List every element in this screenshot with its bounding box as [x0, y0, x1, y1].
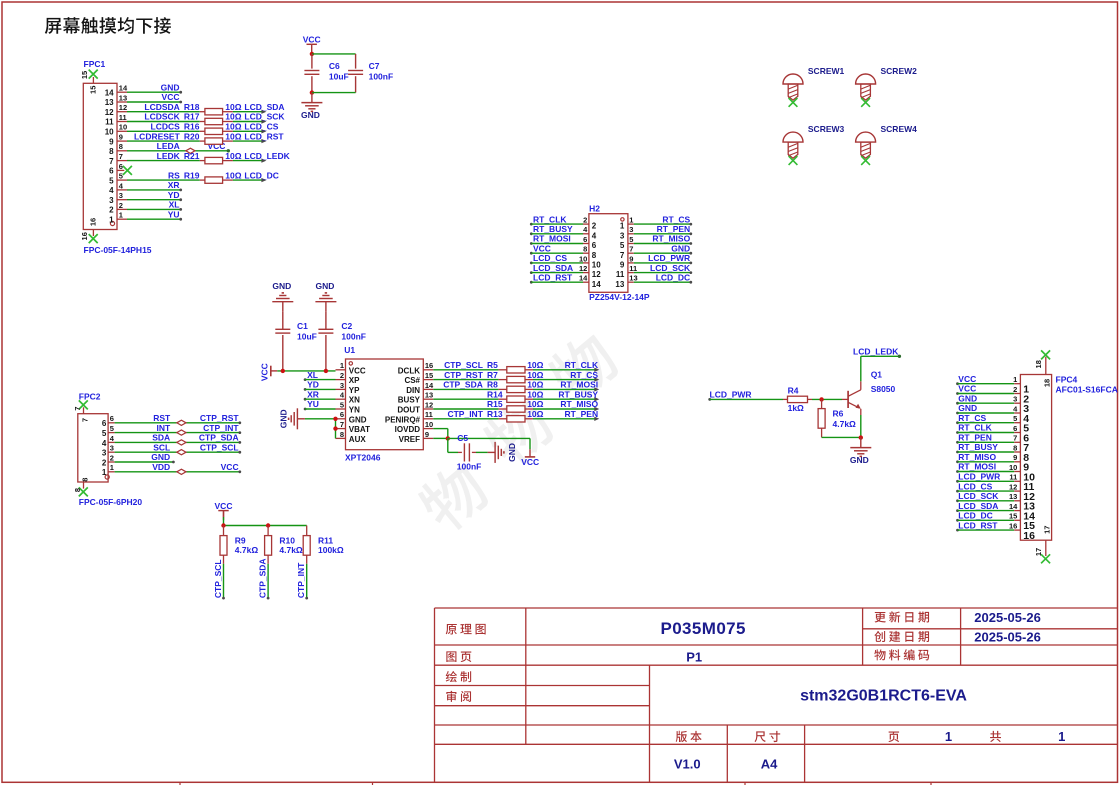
svg-text:R21: R21 [184, 151, 200, 161]
connector FPC1 [83, 59, 117, 229]
wire VCC to U1 pin1 [277, 369, 335, 373]
FPC2 pin 5 INT -> CTP_INT [102, 423, 241, 438]
resistor R7 10R -> RT_CS [433, 370, 599, 383]
ground GND (right of C5) [488, 442, 517, 463]
capacitor C2 100nF [318, 321, 366, 371]
svg-text:R4: R4 [788, 386, 799, 396]
svg-text:12: 12 [425, 400, 433, 409]
svg-text:RT_BUSY: RT_BUSY [958, 442, 998, 452]
svg-text:GND: GND [958, 403, 977, 413]
svg-text:DCLK: DCLK [398, 366, 420, 375]
svg-text:FPC2: FPC2 [79, 391, 101, 401]
U1 pin 2 XP [336, 371, 361, 385]
svg-text:CTP_RST: CTP_RST [200, 413, 240, 423]
svg-text:10: 10 [425, 420, 433, 429]
H2 pin 2 net RT_CLK [530, 214, 597, 230]
svg-text:4: 4 [102, 439, 107, 448]
svg-text:XL: XL [169, 200, 180, 210]
svg-text:6: 6 [583, 235, 587, 244]
FPC4 pin 13 net LCD_SCK [956, 491, 1035, 513]
svg-text:10uF: 10uF [297, 332, 317, 342]
svg-text:RT_MISO: RT_MISO [652, 234, 690, 244]
U1 part name XPT2046 [345, 452, 381, 462]
svg-text:10Ω: 10Ω [527, 389, 543, 399]
svg-text:RT_CS: RT_CS [662, 214, 690, 224]
svg-text:LCDSDA: LCDSDA [144, 102, 179, 112]
svg-text:14: 14 [105, 88, 114, 97]
svg-text:P1: P1 [686, 649, 702, 664]
wire VREF to VCC [448, 438, 530, 449]
svg-text:9: 9 [1013, 453, 1017, 462]
FPC4 pin 10 net RT_MOSI [956, 462, 1035, 484]
svg-text:LCD_RST: LCD_RST [958, 520, 998, 530]
net label XL to U1 pin 2 [304, 370, 336, 381]
FPC4 pin 2 net VCC [956, 384, 1029, 406]
svg-text:12: 12 [579, 264, 587, 273]
U1 pin 9 VREF [399, 430, 434, 444]
svg-text:10: 10 [119, 123, 127, 132]
resistor R16 10R LCDCS -> LCD_CS [127, 122, 279, 135]
FPC1 pin 9 net LCDRESET [109, 133, 127, 147]
wire VCC bus to pull-ups [221, 510, 306, 528]
U1 pin 16 DCLK [398, 361, 434, 375]
svg-text:VDD: VDD [152, 462, 170, 472]
svg-text:14: 14 [425, 381, 434, 390]
wire C6/C7 bottom [310, 90, 356, 94]
svg-text:1: 1 [1013, 375, 1017, 384]
FPC1 pin 8 net LEDA [109, 141, 230, 156]
svg-text:DIN: DIN [406, 386, 420, 395]
H2 pin 11 net LCD_SCK [616, 263, 692, 279]
capacitor C7 100nF [348, 54, 393, 93]
svg-text:8: 8 [73, 488, 82, 492]
svg-text:VCC: VCC [215, 501, 233, 511]
svg-text:VCC: VCC [349, 366, 366, 375]
svg-text:10: 10 [592, 261, 601, 270]
svg-text:1: 1 [102, 468, 107, 477]
svg-text:7: 7 [81, 418, 90, 422]
svg-text:10Ω: 10Ω [527, 399, 543, 409]
svg-text:8: 8 [1013, 443, 1017, 452]
resistor R9 4.7kΩ pull-up to CTP_SCL [213, 526, 258, 600]
svg-text:5: 5 [1013, 414, 1017, 423]
svg-text:1: 1 [119, 211, 123, 220]
svg-text:YD: YD [168, 190, 180, 200]
FPC2 pin 3 SCL -> CTP_SCL [102, 442, 241, 457]
svg-text:13: 13 [425, 391, 433, 400]
svg-text:CTP_INT: CTP_INT [296, 562, 306, 598]
svg-text:XP: XP [349, 376, 360, 385]
svg-text:YN: YN [349, 406, 360, 415]
H2 pin 5 net RT_MISO [620, 234, 692, 250]
capacitor C1 10uF [275, 321, 317, 371]
svg-text:C6: C6 [329, 61, 340, 71]
svg-text:4: 4 [592, 231, 597, 240]
svg-text:14: 14 [119, 84, 128, 93]
power VCC (left of U1) [259, 363, 277, 381]
svg-text:11: 11 [616, 270, 625, 279]
FPC4 part number AFC01-S16FCA [1056, 385, 1118, 395]
U1 pin 5 YN [336, 400, 361, 414]
connector H2 [589, 203, 628, 292]
svg-text:LCD_CS: LCD_CS [958, 481, 992, 491]
svg-text:100nF: 100nF [457, 462, 482, 472]
H2 pin 8 net VCC [530, 243, 597, 259]
svg-text:SCREW4: SCREW4 [881, 124, 918, 134]
svg-text:CTP_SDA: CTP_SDA [443, 380, 483, 390]
svg-text:14: 14 [592, 280, 601, 289]
svg-text:LCD_DC: LCD_DC [958, 511, 992, 521]
svg-text:6: 6 [592, 241, 597, 250]
svg-text:1: 1 [629, 216, 633, 225]
svg-text:5: 5 [102, 429, 107, 438]
capacitor C5 100nF [448, 433, 488, 472]
capacitor C6 10uF [304, 54, 348, 93]
FPC2 pin 2 GND [102, 452, 175, 467]
svg-text:RT_PEN: RT_PEN [657, 224, 691, 234]
svg-text:YU: YU [168, 209, 180, 219]
svg-text:LCDSCK: LCDSCK [144, 112, 180, 122]
H2 pin 3 net RT_PEN [620, 224, 692, 240]
svg-text:GND: GND [671, 243, 690, 253]
svg-text:3: 3 [119, 191, 123, 200]
svg-text:7: 7 [109, 157, 114, 166]
svg-text:16: 16 [1009, 522, 1017, 531]
svg-text:CTP_SDA: CTP_SDA [199, 433, 239, 443]
FPC4 pin 17 (no connect) [1034, 526, 1052, 564]
svg-text:U1: U1 [344, 345, 355, 355]
ground GND (above C2) [315, 281, 336, 329]
svg-text:11: 11 [425, 410, 433, 419]
net label XR to U1 pin 4 [304, 389, 336, 400]
FPC4 pin 6 net RT_CLK [956, 423, 1029, 445]
wire VCC rail to C6/C7 [310, 52, 356, 56]
svg-text:R13: R13 [487, 409, 503, 419]
svg-text:5: 5 [629, 235, 633, 244]
svg-text:FPC-05F-14PH15: FPC-05F-14PH15 [84, 245, 152, 255]
ground GND (under C6) [301, 93, 322, 121]
svg-text:AFC01-S16FCA: AFC01-S16FCA [1056, 385, 1118, 395]
svg-text:RT_CLK: RT_CLK [565, 360, 599, 370]
svg-text:15: 15 [425, 371, 433, 380]
svg-text:6: 6 [109, 167, 114, 176]
svg-text:10Ω: 10Ω [225, 170, 241, 180]
H2 pin 4 net RT_BUSY [530, 224, 597, 240]
power VCC (pull-ups) [215, 501, 233, 520]
resistor R6 4.7k [818, 399, 856, 437]
connector FPC2 [78, 391, 109, 482]
svg-text:LCD_SDA: LCD_SDA [244, 102, 284, 112]
svg-text:3: 3 [629, 225, 633, 234]
svg-text:LEDA: LEDA [157, 141, 180, 151]
svg-text:LCD_SDA: LCD_SDA [533, 263, 573, 273]
svg-text:1: 1 [620, 222, 625, 231]
svg-text:R19: R19 [184, 170, 200, 180]
FPC4 pin 8 net RT_BUSY [956, 442, 1029, 464]
svg-text:RT_CS: RT_CS [958, 413, 986, 423]
FPC2 pin 8 (no connect) [73, 478, 90, 497]
U1 pin 1 VCC [336, 361, 366, 375]
svg-text:R8: R8 [487, 380, 498, 390]
net label YD to U1 pin 3 [304, 380, 336, 391]
svg-text:RT_PEN: RT_PEN [958, 433, 992, 443]
FPC4 pin 3 net GND [956, 393, 1029, 415]
svg-text:3: 3 [620, 231, 625, 240]
svg-text:100nF: 100nF [341, 332, 366, 342]
svg-text:GND: GND [272, 281, 291, 291]
svg-text:V1.0: V1.0 [674, 756, 701, 771]
FPC1 pin 6 no-connect [109, 162, 132, 176]
svg-text:LCD_DC: LCD_DC [656, 272, 690, 282]
wire U1 pin10 IOVDD to pin9 VREF [433, 429, 450, 441]
FPC4 pin 7 net RT_PEN [956, 433, 1029, 455]
svg-text:RT_MISO: RT_MISO [958, 452, 996, 462]
svg-text:16: 16 [1023, 530, 1035, 542]
svg-text:VCC: VCC [958, 384, 976, 394]
svg-text:P035M075: P035M075 [660, 619, 745, 638]
svg-text:10uF: 10uF [329, 72, 349, 82]
svg-text:5: 5 [119, 172, 123, 181]
resistor R19 10R RS -> LCD_DC [127, 170, 279, 183]
svg-text:13: 13 [105, 98, 114, 107]
svg-text:LCD_SCK: LCD_SCK [650, 263, 691, 273]
svg-text:10Ω: 10Ω [225, 122, 241, 132]
svg-text:VCC: VCC [221, 462, 239, 472]
svg-text:XR: XR [168, 180, 180, 190]
svg-text:8: 8 [81, 478, 90, 482]
svg-text:VBAT: VBAT [349, 425, 370, 434]
svg-text:13: 13 [629, 274, 637, 283]
svg-text:7: 7 [1013, 434, 1017, 443]
resistor R18 10R LCDSDA -> LCD_SDA [127, 102, 285, 115]
U1 pin 10 IOVDD [395, 420, 434, 434]
svg-text:IOVDD: IOVDD [395, 425, 421, 434]
svg-text:VCC: VCC [303, 35, 321, 45]
U1 pin 13 BUSY [398, 391, 434, 405]
U1 pin 14 DIN [406, 381, 434, 395]
svg-text:6: 6 [1013, 424, 1017, 433]
svg-text:9: 9 [620, 261, 625, 270]
FPC1 part number FPC-05F-14PH15 [84, 245, 152, 255]
svg-text:FPC1: FPC1 [84, 59, 106, 69]
svg-text:2: 2 [583, 216, 587, 225]
FPC1 pin 7 net LEDK [109, 152, 127, 166]
resistor R11 100kΩ pull-up to CTP_INT [296, 526, 344, 600]
svg-text:3: 3 [109, 196, 114, 205]
title block grid [435, 608, 1118, 782]
svg-text:RS: RS [168, 170, 180, 180]
H2 pin 12 net LCD_SDA [530, 263, 601, 279]
svg-text:10: 10 [105, 128, 114, 137]
svg-text:16: 16 [80, 232, 89, 240]
svg-text:R16: R16 [184, 122, 200, 132]
svg-text:LCD_LEDK: LCD_LEDK [244, 151, 290, 161]
FPC4 pin 15 net LCD_DC [956, 511, 1035, 533]
svg-text:13: 13 [615, 280, 624, 289]
svg-text:R20: R20 [184, 131, 200, 141]
ground GND (Q1 emitter) [850, 438, 871, 466]
svg-text:15: 15 [1009, 512, 1017, 521]
svg-text:LCD_DC: LCD_DC [244, 170, 278, 180]
net label LCD_LEDK (collector) [853, 346, 901, 381]
svg-text:GND: GND [315, 281, 334, 291]
svg-text:XL: XL [307, 370, 318, 380]
FPC1 pin 4 net XR [109, 180, 182, 195]
svg-text:R6: R6 [833, 409, 844, 419]
svg-text:15: 15 [80, 71, 89, 79]
svg-text:16: 16 [88, 218, 97, 226]
svg-text:GND: GND [278, 409, 288, 428]
U1 pin 6 GND [336, 410, 367, 424]
svg-text:12: 12 [1009, 483, 1017, 492]
svg-text:SCL: SCL [153, 442, 170, 452]
svg-text:4.7kΩ: 4.7kΩ [279, 545, 303, 555]
svg-text:YU: YU [307, 399, 319, 409]
svg-text:CTP_INT: CTP_INT [203, 423, 239, 433]
FPC1 pin 11 net LCDSCK [105, 113, 127, 127]
resistor R20 10R LCDRESET -> LCD_RST [127, 131, 284, 144]
svg-text:VCC: VCC [162, 92, 180, 102]
FPC4 pin 9 net RT_MISO [956, 452, 1029, 474]
FPC4 pin 5 net RT_CS [956, 413, 1029, 435]
svg-text:BUSY: BUSY [398, 396, 421, 405]
svg-text:15: 15 [88, 86, 97, 94]
svg-text:VCC: VCC [533, 243, 551, 253]
svg-text:YD: YD [307, 380, 319, 390]
svg-text:11: 11 [119, 113, 127, 122]
svg-text:2: 2 [340, 371, 344, 380]
svg-text:LCDRESET: LCDRESET [134, 131, 181, 141]
FPC2 part number FPC-05F-6PH20 [79, 497, 143, 507]
svg-text:RT_MOSI: RT_MOSI [560, 380, 598, 390]
resistor R15 10R -> RT_MISO [433, 399, 599, 412]
svg-text:2: 2 [1013, 385, 1017, 394]
svg-text:VCC: VCC [521, 457, 539, 467]
svg-text:SCREW3: SCREW3 [808, 124, 845, 134]
svg-text:7: 7 [340, 420, 344, 429]
svg-text:C1: C1 [297, 321, 308, 331]
svg-text:R17: R17 [184, 112, 200, 122]
svg-text:FPC4: FPC4 [1056, 374, 1078, 384]
resistor R4 1k [783, 386, 812, 414]
svg-text:10: 10 [1009, 463, 1017, 472]
svg-text:9: 9 [425, 430, 429, 439]
ground GND (U1 pin 6) [278, 408, 335, 429]
H2 pin 14 net LCD_RST [530, 272, 601, 288]
svg-text:3: 3 [340, 381, 344, 390]
svg-text:LCD_SCK: LCD_SCK [958, 491, 999, 501]
FPC1 pin 1 net YU [109, 209, 182, 224]
svg-text:R14: R14 [487, 389, 503, 399]
FPC1 pin 16 (no connect) [80, 218, 98, 243]
svg-text:2025-05-26: 2025-05-26 [974, 629, 1041, 644]
svg-text:CS#: CS# [404, 376, 420, 385]
transistor Q1 S8050 [842, 370, 896, 416]
wire R4 to Q1 base [812, 397, 842, 401]
FPC4 pin 12 net LCD_CS [956, 481, 1035, 503]
H2 pin 7 net GND [620, 243, 692, 259]
svg-text:CTP_INT: CTP_INT [447, 409, 483, 419]
svg-text:CTP_RST: CTP_RST [444, 370, 484, 380]
U1 pin 15 CS# [404, 371, 433, 385]
svg-text:1kΩ: 1kΩ [788, 403, 804, 413]
svg-text:LCD_RST: LCD_RST [244, 131, 284, 141]
svg-text:3: 3 [1013, 395, 1017, 404]
svg-text:2: 2 [592, 222, 597, 231]
svg-text:GND: GND [958, 393, 977, 403]
svg-text:GND: GND [850, 455, 869, 465]
svg-text:5: 5 [109, 176, 114, 185]
resistor R14 10R -> RT_BUSY [433, 389, 599, 402]
svg-text:PZ254V-12-14P: PZ254V-12-14P [589, 292, 650, 302]
svg-text:RT_MOSI: RT_MOSI [958, 462, 996, 472]
svg-text:GND: GND [161, 82, 180, 92]
svg-text:XPT2046: XPT2046 [345, 452, 381, 462]
svg-text:8: 8 [592, 251, 597, 260]
svg-text:17: 17 [1034, 548, 1043, 556]
svg-text:4.7kΩ: 4.7kΩ [833, 419, 857, 429]
svg-text:R11: R11 [318, 535, 333, 545]
U1 pin 12 DOUT [397, 400, 433, 414]
U1 pin 8 AUX [336, 430, 367, 444]
mounting hole SCREW1 [783, 66, 845, 107]
svg-text:5: 5 [620, 241, 625, 250]
svg-text:9: 9 [629, 254, 633, 263]
svg-text:2025-05-26: 2025-05-26 [974, 610, 1041, 625]
resistor R10 4.7kΩ pull-up to CTP_SDA [258, 526, 303, 600]
FPC4 pin 1 net VCC [956, 374, 1029, 396]
svg-text:LCD_CS: LCD_CS [533, 253, 567, 263]
svg-text:8: 8 [583, 245, 587, 254]
svg-text:VCC: VCC [259, 363, 269, 381]
svg-text:R10: R10 [279, 535, 295, 545]
FPC4 pin 11 net LCD_PWR [956, 472, 1034, 494]
H2 pin 1 net RT_CS [620, 214, 692, 230]
svg-text:LCDCS: LCDCS [151, 122, 181, 132]
FPC4 pin 14 net LCD_SDA [956, 501, 1035, 523]
svg-text:GND: GND [301, 110, 320, 120]
mounting hole SCREW4 [856, 124, 918, 165]
resistor R17 10R LCDSCK -> LCD_SCK [127, 112, 285, 125]
svg-text:10Ω: 10Ω [527, 370, 543, 380]
svg-text:XR: XR [307, 389, 319, 399]
heading text 屏幕触摸均下接 [45, 17, 171, 34]
svg-text:4.7kΩ: 4.7kΩ [235, 545, 259, 555]
svg-text:10Ω: 10Ω [225, 151, 241, 161]
svg-text:2: 2 [110, 453, 114, 462]
net label LCD_PWR [708, 390, 783, 401]
svg-text:GND: GND [349, 415, 367, 424]
svg-text:6: 6 [102, 419, 107, 428]
svg-text:GND: GND [151, 452, 170, 462]
svg-text:CTP_SCL: CTP_SCL [200, 442, 239, 452]
FPC1 pin 13 net VCC [105, 92, 182, 107]
svg-text:18: 18 [1034, 360, 1043, 368]
svg-text:R5: R5 [487, 360, 498, 370]
H2 part number PZ254V-12-14P [589, 292, 650, 302]
svg-text:14: 14 [1009, 502, 1018, 511]
svg-text:LCD_LEDK: LCD_LEDK [853, 346, 899, 356]
svg-text:1: 1 [1058, 729, 1065, 744]
H2 pin 13 net LCD_DC [615, 272, 692, 288]
power VCC (right of C5) [521, 449, 539, 467]
svg-text:FPC-05F-6PH20: FPC-05F-6PH20 [79, 497, 143, 507]
svg-text:SCREW2: SCREW2 [881, 66, 918, 76]
svg-text:RT_BUSY: RT_BUSY [558, 389, 598, 399]
svg-text:12: 12 [105, 108, 114, 117]
svg-text:100nF: 100nF [369, 72, 394, 82]
svg-text:R18: R18 [184, 102, 200, 112]
